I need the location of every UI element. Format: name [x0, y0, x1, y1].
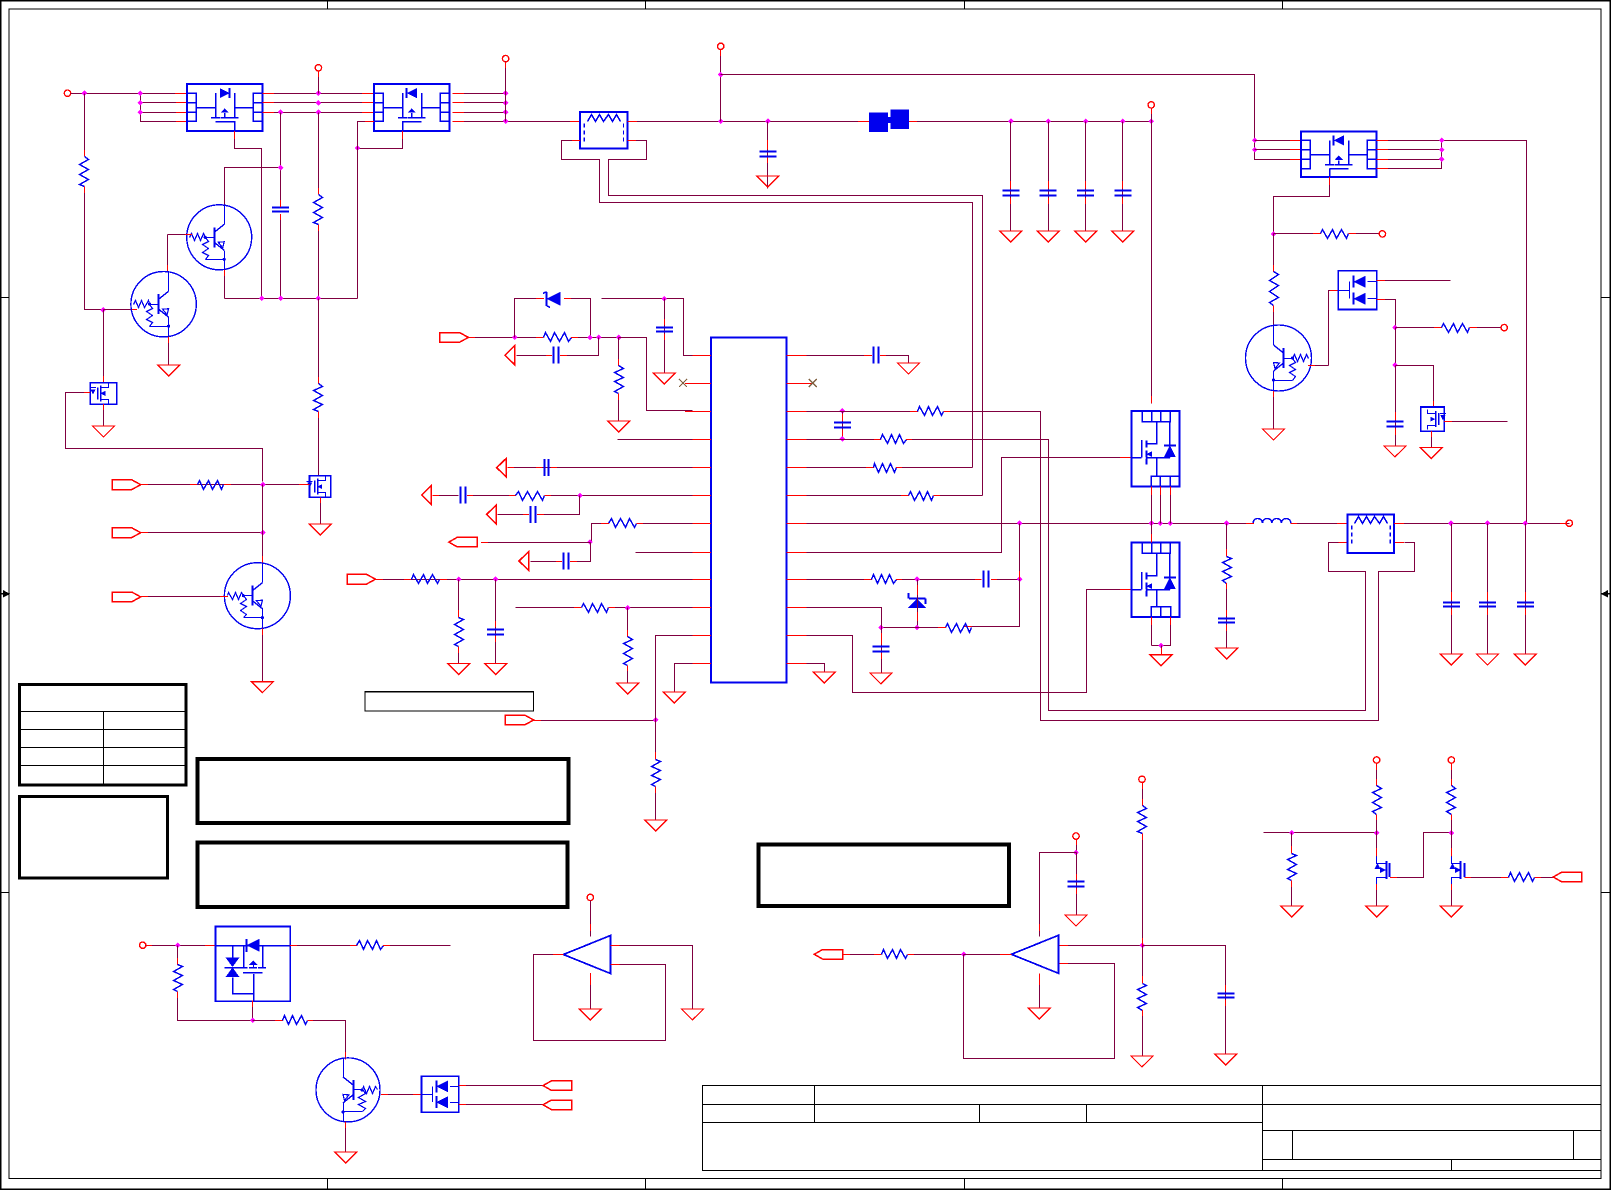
resistor R21: [874, 464, 897, 473]
resistor R13: [609, 519, 637, 528]
wire P4 vertical: [720, 50, 722, 122]
junction r411: [840, 408, 846, 414]
resistor R30: [882, 950, 908, 959]
resistor R26: [198, 481, 224, 490]
load switch Q11: [215, 926, 290, 1001]
ic U5 left pin 4: [685, 439, 711, 441]
wire D4 pin1: [459, 1085, 544, 1087]
junction bus x1487: [1485, 520, 1491, 526]
junction cap C2 node: [765, 118, 771, 124]
capacitor C23: [1517, 603, 1534, 607]
capacitor C4: [1040, 191, 1057, 196]
border zone tick top x=645.5: [645, 1, 647, 9]
wire R33 top: [1291, 833, 1293, 854]
junction P9: [175, 942, 181, 948]
junction U3 out row2: [1439, 147, 1445, 153]
wire r411: [807, 411, 919, 413]
wire C23 branch: [1076, 853, 1078, 916]
border zone tick bottom x=1282: [1282, 1179, 1284, 1190]
connector row467: [497, 458, 507, 477]
zener diode D3: [908, 593, 927, 612]
revision table: [20, 685, 187, 786]
connector row355: [505, 346, 515, 365]
junction br Q9: [1449, 830, 1455, 836]
terminal P14: [1448, 757, 1454, 763]
ic U5 right pin 9: [787, 579, 813, 581]
transistor Q7: [316, 1058, 380, 1122]
wire r607: [807, 608, 882, 628]
wire D1 pin2: [1377, 300, 1396, 328]
junction vbus row1: [503, 90, 509, 96]
connector output D4a: [543, 1081, 572, 1091]
wire U3 row1: [1255, 140, 1302, 142]
junction bus end: [1148, 118, 1154, 124]
junction T1/vertical: [718, 118, 724, 124]
wire R8 to Q4: [1273, 306, 1275, 326]
junction U2 source/row4: [355, 145, 361, 151]
junction input/R1: [82, 90, 88, 96]
wire P12 to R31: [1142, 783, 1144, 807]
wire U4 bottom stub2: [1160, 487, 1162, 524]
mosfet Q6: [307, 476, 331, 497]
ic U5 left pin 12: [685, 663, 711, 665]
wire r355: [807, 355, 873, 357]
wire Q2 base node to Q5 drain: [103, 310, 105, 383]
wire row514 branch: [537, 496, 580, 515]
wire C1 to bus: [280, 214, 282, 299]
capacitor C1: [272, 208, 289, 212]
ground cap bank 1: [1000, 231, 1022, 242]
wire Q1 base to Q2 collector: [167, 235, 169, 273]
wire U7 feedback: [534, 955, 666, 1041]
resistor R23: [872, 575, 897, 584]
no-connect right pin2: [809, 379, 817, 387]
connector output row542: [449, 537, 478, 547]
border zone tick top x=327: [327, 1, 329, 9]
wire R31 to dot: [1142, 833, 1144, 945]
wire output cap 2: [1487, 524, 1489, 655]
ic U5 left pin 11: [685, 635, 711, 637]
connector input B: [112, 528, 141, 538]
junction C8 node: [1392, 362, 1398, 368]
wire R25 to C20: [1226, 583, 1228, 649]
ic U5 right pin 4: [787, 439, 813, 441]
wire R29 left: [253, 1020, 284, 1022]
junction row579 b: [493, 576, 499, 582]
junction x1019 mid: [1017, 576, 1023, 582]
junction cap bank 3: [1083, 118, 1089, 124]
capacitor C10: [656, 328, 673, 332]
wire R32 top: [1142, 946, 1144, 984]
ic U5 main controller: [711, 338, 787, 683]
ground output cap 3: [1514, 654, 1536, 665]
wire U6 top stub: [1151, 524, 1153, 543]
junction br R33: [1289, 830, 1295, 836]
junction P11: [1073, 850, 1079, 856]
ic U5 right pin 8: [787, 552, 813, 554]
junction cap bank 4: [1120, 118, 1126, 124]
mosfet module U3: [1301, 131, 1377, 177]
wire U2-out row1: [453, 93, 506, 95]
dual diode D4: [422, 1076, 459, 1112]
junction R9 node: [1392, 325, 1398, 331]
wire Q8 source: [1376, 884, 1378, 907]
wire U6 source2: [1152, 617, 1171, 645]
junction input B: [260, 530, 266, 536]
wire T1 to fuse: [628, 121, 870, 123]
wire row523 to pin: [637, 523, 693, 525]
wire T1 secondary right staple: [609, 141, 983, 496]
wire row720 up to pin11: [656, 636, 693, 721]
wire module U1 left pin bus: [141, 94, 188, 122]
wire row467: [508, 467, 693, 469]
wire Q4 base up to D1: [1329, 291, 1339, 366]
resistor R8: [1270, 272, 1279, 306]
ground Q5 source: [93, 426, 115, 437]
wire U8 input: [843, 954, 881, 956]
resistor R35: [1447, 786, 1456, 815]
ground Q6 source: [309, 524, 331, 535]
wire U2-out row2: [453, 102, 506, 104]
wire U6 source1: [1151, 617, 1153, 645]
wire R27 bottom: [178, 992, 253, 1021]
ic U5 right pin 10: [787, 607, 813, 609]
capacitor C13: [531, 506, 536, 523]
wire Q11 bottom: [252, 1001, 254, 1021]
terminal P11: [1073, 833, 1079, 839]
capacitor C22: [1479, 603, 1496, 607]
junction U3 out row3: [1439, 156, 1445, 162]
wire row607 to pin: [609, 607, 693, 609]
terminal P5: [1148, 102, 1154, 108]
transformer T2: [1348, 514, 1395, 553]
ground U7 out: [579, 1009, 601, 1020]
wire U7 inp top: [610, 946, 692, 1010]
wire input A: [141, 484, 309, 486]
wire P5 stub: [1151, 108, 1153, 121]
mosfet module U1: [187, 84, 263, 131]
capacitor C24: [1217, 994, 1234, 998]
wire R25 branch: [1226, 524, 1228, 557]
wire long vertical to module U4: [1151, 122, 1153, 404]
wire row495 a: [433, 495, 459, 497]
connector input A: [112, 480, 141, 490]
wire C2 down: [767, 122, 769, 189]
connector input row720: [505, 715, 534, 725]
wire C1 top red: [280, 200, 282, 207]
ground C19: [870, 673, 892, 684]
junction row579 a: [456, 576, 462, 582]
mosfet Q10: [1421, 407, 1446, 431]
wire R8 top: [1273, 234, 1275, 273]
junction bus x1019: [1017, 520, 1023, 526]
terminal P9: [140, 942, 146, 948]
terminal P12: [1139, 776, 1145, 782]
junction cap bank 1: [1008, 118, 1014, 124]
ground Q7: [335, 1152, 357, 1163]
junction vbus row4: [503, 118, 509, 124]
wire pin12 ground path: [675, 664, 693, 693]
wire Q9 gate: [1465, 877, 1509, 879]
resistor R10: [544, 333, 572, 342]
wire R11 to ground: [618, 393, 620, 421]
op-amp U7: [563, 936, 610, 974]
wire r495 to staple: [934, 495, 983, 497]
wire R15 branch: [458, 580, 460, 618]
capacitor C3: [1002, 191, 1019, 196]
ground r663: [813, 672, 835, 683]
ground C24: [1215, 1054, 1237, 1065]
resistor R19: [918, 407, 944, 416]
junction U6 source: [1158, 643, 1164, 649]
resistor R31: [1138, 806, 1147, 834]
capacitor C20: [1218, 619, 1235, 623]
wire x318 below bus: [318, 299, 320, 385]
junction r579 zener: [914, 576, 920, 582]
capacitor C9: [554, 347, 559, 364]
wire input B: [141, 532, 262, 534]
wire U8 inp top: [1059, 945, 1142, 947]
ic U5 right pin 2: [787, 383, 813, 385]
note box: [20, 797, 168, 879]
wire U4 bottom stub1: [1151, 487, 1153, 524]
wire P11 stub: [1076, 839, 1078, 852]
ground R32: [1131, 1056, 1153, 1067]
junction row1 x318: [316, 90, 322, 96]
ic U5 right pin 3: [787, 411, 813, 413]
ic U5 right pin 12: [787, 663, 813, 665]
wire opamp2 power: [1040, 853, 1077, 937]
wire U1 pin row 2: [141, 102, 188, 104]
wire R18 branch: [655, 721, 657, 760]
centering mark left: [1, 590, 11, 598]
wire input to module U1: [71, 93, 188, 95]
junction vbus row3: [503, 109, 509, 115]
wire Q3 collector: [262, 485, 264, 564]
fuse F1: [869, 110, 909, 133]
ground C10: [653, 373, 675, 384]
resistor R33: [1288, 854, 1297, 881]
junction row337 c: [616, 335, 622, 341]
capacitor C16: [874, 347, 879, 364]
terminal P8 output: [1566, 520, 1572, 526]
capacitor C8: [1387, 422, 1404, 427]
wire U2-out row3: [453, 112, 506, 114]
wire row542 to arrow: [481, 542, 591, 544]
label rectangle: [365, 692, 533, 711]
junction C10 node: [662, 296, 668, 302]
junction bus x1169: [1168, 520, 1174, 526]
wire r355 gnd: [880, 356, 909, 364]
wire R29 to Q7: [307, 1021, 345, 1060]
mosfet module U6: [1132, 543, 1180, 618]
wire U3-out row1: [1377, 141, 1527, 524]
terminal P2 VCC top: [315, 65, 321, 71]
wire r467: [807, 467, 875, 469]
ground cap bank 4: [1112, 231, 1134, 242]
connector output D4b: [543, 1100, 572, 1110]
ground R17: [617, 683, 639, 694]
wire to Q10 gate path: [1396, 366, 1434, 409]
resistor R34: [1373, 786, 1382, 815]
resistor R16: [582, 604, 609, 613]
wire cap bank 3: [1085, 122, 1087, 232]
wire bus L1 to T2: [1291, 523, 1349, 525]
wire R7 to P6: [1348, 233, 1379, 235]
transistor Q2: [131, 272, 196, 337]
junction Q11 bottom: [250, 1018, 256, 1024]
wire Q7 base: [381, 1094, 422, 1096]
junction bus row2: [138, 100, 144, 106]
wire fuse to caps bus: [909, 121, 1152, 123]
wire Q1 emitter to bus: [224, 270, 226, 299]
wire pin8 stub: [636, 552, 693, 554]
junction U3 row1: [1252, 138, 1258, 144]
resistor R27: [174, 965, 183, 992]
connector input row579: [347, 574, 376, 584]
border zone tick right y=892: [1601, 892, 1610, 894]
capacitor C18: [984, 571, 989, 588]
ic U5 left pin 3: [685, 411, 711, 413]
junction row337 a: [587, 335, 593, 341]
junction r439: [840, 436, 846, 442]
wire main output bus: [807, 523, 1255, 525]
junction input A: [260, 482, 266, 488]
junction zener left: [512, 335, 518, 341]
wire cap bank 1: [1010, 122, 1012, 232]
wire R1 bottom to Q2 base node: [85, 187, 104, 310]
junction U8 in: [961, 952, 967, 958]
wire U2 source down: [358, 131, 403, 149]
junction row607: [625, 605, 631, 611]
junction bus/U1src: [259, 296, 265, 302]
wire r439: [807, 439, 882, 441]
wire row627: [882, 627, 947, 629]
title block: [702, 1085, 1601, 1171]
wire C9 branch: [560, 338, 599, 356]
wire br bus: [1264, 832, 1377, 834]
junction bus x1151: [1149, 520, 1155, 526]
wire R27 top: [177, 946, 179, 966]
resistor R36: [1509, 873, 1535, 882]
wire U8 out gnd: [1039, 973, 1041, 1008]
resistor R1: [80, 157, 89, 187]
mosfet Q8: [1375, 857, 1390, 885]
resistor R20: [881, 435, 907, 444]
ground r355: [898, 363, 920, 374]
resistor R4: [314, 195, 323, 225]
ic U5 right pin 7: [787, 523, 813, 525]
wire r945 to C24: [1143, 946, 1226, 1055]
ground cap bank 2: [1037, 231, 1059, 242]
capacitor C6: [1114, 191, 1131, 196]
wire to Q2 base: [104, 309, 138, 311]
wire C10 down: [664, 299, 666, 374]
wire r495: [807, 495, 910, 497]
connector row561: [519, 552, 529, 571]
connector row495: [422, 486, 432, 505]
wire Q8 gate: [1390, 833, 1451, 878]
resistor R32: [1138, 984, 1147, 1011]
resistor R7: [1321, 230, 1349, 239]
junction bus x1226: [1224, 520, 1230, 526]
capacitor C12: [461, 487, 466, 504]
resistor R28: [357, 941, 384, 950]
wire r467 to staple: [896, 467, 973, 469]
capacitor C11: [545, 459, 549, 476]
wire output cap 1: [1451, 524, 1453, 655]
junction cap bank 2: [1045, 118, 1051, 124]
resistor R12: [516, 492, 545, 501]
wire R7 node right: [1274, 233, 1322, 235]
terminal P6: [1379, 231, 1385, 237]
wire R1 top: [84, 94, 86, 157]
wire D1 pin1 stub: [1377, 280, 1451, 282]
wire R33 gnd: [1291, 881, 1293, 907]
wire x1019 vertical: [964, 524, 1020, 627]
ground Q3: [251, 682, 273, 693]
wire R9 node down: [1395, 328, 1397, 366]
junction Q2 base node: [100, 307, 106, 313]
wire Q1 base link: [168, 234, 193, 236]
ground Q8: [1366, 906, 1388, 917]
wire P13 to R34: [1376, 763, 1378, 786]
wire row337 to pin3: [619, 338, 693, 411]
ground U7 inp: [682, 1009, 704, 1020]
wire C8 down: [1395, 366, 1397, 447]
transformer T1: [580, 112, 627, 148]
terminal P13: [1373, 757, 1379, 763]
op-amp U8: [1011, 935, 1058, 973]
wire U2 row4 down: [358, 122, 375, 299]
wire r411 lineB: [944, 412, 1415, 721]
note rectangle 3: [759, 845, 1010, 907]
junction bus x1450: [1448, 520, 1454, 526]
wire Q5 source: [103, 404, 105, 426]
connector output R36: [1553, 872, 1582, 882]
ic U5 right pin 5: [787, 467, 813, 469]
wire R18 ground: [655, 787, 657, 821]
mosfet Q5: [90, 383, 117, 404]
wire C17 links: [842, 412, 844, 440]
ic U5 left pin 6: [685, 495, 711, 497]
wire r439 lineA: [906, 440, 1366, 711]
ground C23: [1065, 915, 1087, 926]
junction bus x1160: [1158, 520, 1164, 526]
ground Q9: [1440, 906, 1462, 917]
wire top long bus: [721, 75, 1302, 160]
resistor R9: [1442, 324, 1470, 333]
wire Q10 gate right: [1444, 421, 1507, 423]
ic U5 left pin 7: [685, 523, 711, 525]
wire Q1 collector node: [225, 168, 281, 206]
wire R9 left: [1396, 327, 1443, 329]
junction row495: [577, 493, 583, 499]
ic U5 right pin 1: [787, 355, 813, 357]
wire Q6 source: [320, 497, 322, 524]
junction U3 row2: [1252, 147, 1258, 153]
wire zener loop: [515, 299, 545, 338]
capacitor C5: [1077, 191, 1094, 196]
wire Q7 emitter: [345, 1122, 347, 1153]
wire VCC terminal down: [318, 71, 320, 94]
junction bus x1525: [1523, 520, 1529, 526]
connector input row337: [440, 333, 469, 343]
junction r945: [1140, 943, 1146, 949]
mosfet module U2: [374, 84, 450, 131]
capacitor C2: [759, 152, 776, 157]
wire C15 branch: [495, 580, 497, 664]
